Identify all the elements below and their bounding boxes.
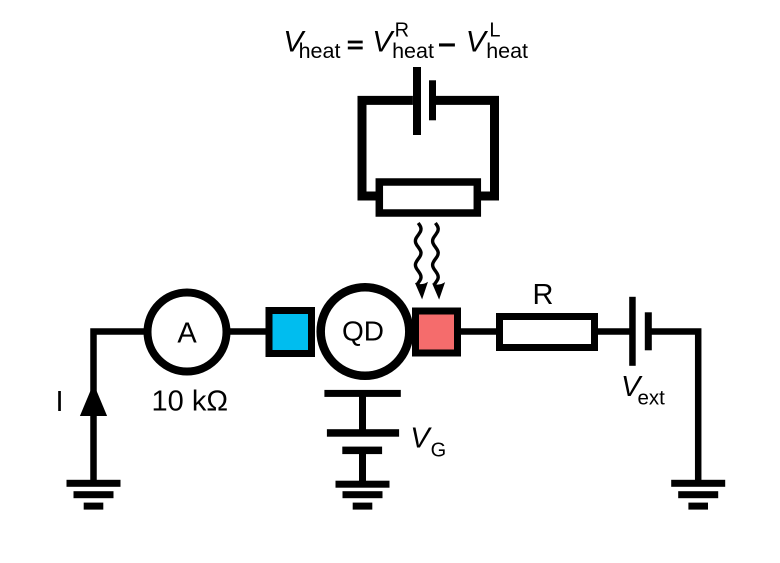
svg-text:V: V bbox=[410, 423, 432, 455]
gate wire plate1 to plate2 bbox=[359, 396, 366, 430]
svg-text:QD: QD bbox=[342, 315, 384, 346]
svg-text:G: G bbox=[431, 439, 447, 461]
svg-text:I: I bbox=[55, 386, 63, 418]
wire battery to right ground bbox=[650, 332, 698, 484]
svg-text:heat: heat bbox=[486, 39, 528, 63]
heat wavy arrow right bbox=[432, 223, 445, 300]
wire red barrier to resistor R bbox=[458, 328, 500, 335]
gate wire to ground bbox=[359, 453, 366, 482]
svg-text:A: A bbox=[177, 317, 197, 349]
gate capacitor bottom plate / battery long plate bbox=[327, 429, 399, 437]
heater resistor bbox=[379, 182, 477, 213]
resistor R bbox=[500, 317, 595, 348]
wire left vertical and to ammeter bbox=[94, 332, 151, 484]
svg-text:heat: heat bbox=[299, 39, 341, 63]
heater loop left wire bbox=[362, 100, 413, 196]
svg-text:10 kΩ: 10 kΩ bbox=[152, 386, 229, 418]
red tunnel barrier bbox=[416, 311, 458, 353]
gate battery short plate bbox=[342, 447, 382, 455]
heater battery long plate bbox=[413, 67, 421, 135]
svg-text:heat: heat bbox=[392, 39, 434, 63]
heater battery short plate bbox=[429, 80, 436, 120]
quantum dot QD bbox=[321, 287, 410, 376]
gate capacitor top plate bbox=[324, 390, 400, 397]
svg-text:R: R bbox=[533, 279, 554, 311]
ground left bbox=[67, 480, 121, 510]
heater loop right wire bbox=[436, 100, 495, 196]
current arrow I bbox=[80, 384, 107, 417]
battery Vext long plate bbox=[629, 297, 636, 366]
label VG bbox=[410, 423, 446, 462]
ammeter A bbox=[148, 293, 227, 372]
label Vheat formula bbox=[283, 20, 528, 64]
ground gate bbox=[336, 481, 390, 510]
battery Vext short plate bbox=[645, 312, 652, 350]
svg-text:ext: ext bbox=[638, 386, 666, 409]
heat wavy arrow left bbox=[415, 223, 428, 299]
ground right bbox=[671, 480, 725, 510]
blue tunnel barrier bbox=[269, 311, 312, 354]
wire resistor to battery bbox=[594, 328, 630, 335]
label Vext bbox=[621, 371, 665, 409]
wire ammeter to blue barrier bbox=[226, 328, 272, 335]
